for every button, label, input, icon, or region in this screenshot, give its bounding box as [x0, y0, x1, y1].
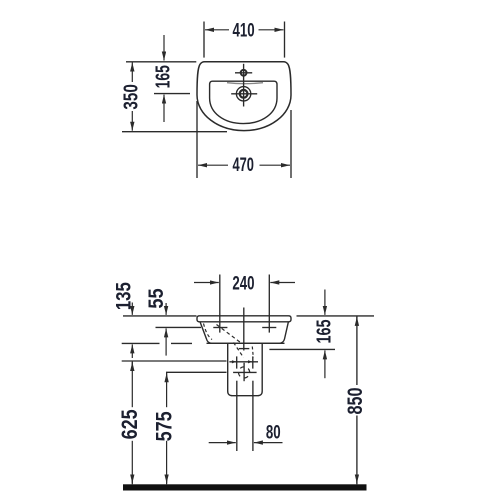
svg-text:55: 55: [145, 288, 169, 308]
dim 55 bottom arrow: [165, 328, 167, 355]
drain inner ring: [240, 90, 248, 98]
dim 165 plan reference stub (drain centre): [154, 93, 190, 95]
trap cross: [233, 371, 257, 373]
dim 240 extension line right: [268, 275, 270, 333]
right reference line rim top: [297, 315, 375, 317]
svg-text:240: 240: [232, 272, 254, 294]
dim 575 line with arrows: [166, 373, 168, 380]
dim 165 plan upper arrow: [163, 35, 165, 61]
dim 80 arrow right: [254, 442, 283, 444]
faucet hole cross right (elevation): [262, 327, 276, 329]
dim 470 arrow right: [260, 164, 291, 166]
svg-text:80: 80: [266, 421, 281, 443]
washbasin outer outline (plan): [197, 62, 291, 131]
dim 80 arrow left: [209, 442, 236, 444]
dim 350 arrow down: [131, 111, 133, 131]
inner bowl outline (plan): [210, 81, 277, 123]
dim 350 bottom reference line: [122, 131, 227, 133]
siphon inlet arrow line: [229, 361, 258, 363]
dim 240 arrow left: [194, 282, 219, 284]
dim 135 top arrow: [131, 303, 133, 315]
waste pipe line right: [252, 381, 254, 451]
dim 165 elevation top arrow: [324, 290, 326, 315]
basin bottom edge: [207, 342, 285, 344]
drain crosshair horizontal: [231, 93, 257, 95]
deck shadow line: [227, 83, 263, 84]
svg-text:135: 135: [113, 282, 136, 310]
svg-text:165: 165: [312, 319, 335, 343]
drain centre cross in pedestal: [239, 348, 250, 350]
dim 470 extension line right: [290, 110, 292, 178]
svg-text:625: 625: [118, 409, 142, 439]
dim 165 plan lower arrow: [163, 95, 165, 122]
svg-text:165: 165: [151, 65, 174, 88]
dim 165 elevation bottom arrow: [324, 350, 326, 378]
dim 135 bottom arrow: [131, 344, 133, 358]
left reference line faucet centre: [156, 326, 202, 328]
dim 850 line with arrows: [356, 317, 358, 325]
hidden bowl dashed lines: [204, 324, 213, 340]
basin body (front view): [200, 322, 288, 344]
dim 470 extension line left: [196, 101, 198, 178]
dim 240 arrow right: [270, 282, 295, 284]
right reference line outlet level: [269, 348, 335, 350]
left reference line basin bottom: [122, 342, 160, 344]
faucet crosshair horizontal: [235, 72, 252, 74]
siphon inlet ticks: [236, 356, 238, 368]
dim 625 line with arrows: [131, 362, 133, 370]
drain outer circle: [236, 87, 250, 101]
rim bar (front view): [197, 316, 291, 322]
faucet hole ring: [241, 70, 247, 76]
svg-text:410: 410: [233, 19, 255, 41]
left reference line 575 level: [166, 371, 227, 373]
half pedestal (siphon cover): [228, 343, 263, 395]
left reference line 625 level: [122, 360, 227, 362]
faucet hole cross left (elevation): [213, 327, 227, 329]
dim 470 arrow left: [198, 164, 228, 166]
centerline (elevation): [243, 308, 245, 351]
left reference line rim top: [123, 315, 197, 317]
dim 410 arrow left: [205, 29, 229, 31]
dim 350 top reference line: [126, 61, 196, 63]
dim 55 top arrow: [165, 303, 167, 315]
svg-text:470: 470: [232, 153, 253, 175]
svg-text:575: 575: [153, 411, 177, 441]
svg-text:850: 850: [343, 388, 367, 415]
trap hidden pipe dashed circle: [236, 364, 252, 380]
svg-text:350: 350: [120, 84, 143, 109]
dim 240 extension line left: [219, 275, 221, 333]
dim 410 arrow right: [259, 29, 284, 31]
centerline vertical (plan): [243, 64, 245, 107]
dim 350 arrow up: [131, 63, 133, 83]
dim 410 extension line left: [203, 22, 205, 58]
dim 410 extension line right: [284, 22, 286, 58]
floor line: [123, 484, 367, 490]
waste pipe line left: [236, 381, 238, 451]
